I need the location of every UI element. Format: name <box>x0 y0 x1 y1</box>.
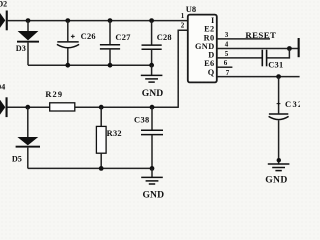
resistor R29 <box>45 90 74 111</box>
svg-text:1: 1 <box>181 12 185 20</box>
svg-text:C26: C26 <box>81 32 96 41</box>
svg-text:2: 2 <box>181 22 185 30</box>
diode D4 <box>0 83 8 118</box>
svg-text:7: 7 <box>226 69 230 77</box>
wire pin3 to RESET <box>217 38 270 40</box>
svg-text:5: 5 <box>225 50 229 58</box>
svg-text:D2: D2 <box>0 0 7 8</box>
svg-text:D3: D3 <box>16 44 26 53</box>
diode D3 <box>16 21 39 66</box>
svg-text:C32: C32 <box>285 99 300 109</box>
wire middle rail <box>28 64 152 66</box>
svg-text:GND: GND <box>142 88 164 99</box>
svg-text:D4: D4 <box>0 83 5 92</box>
diode D2 <box>0 0 8 30</box>
node junction D5/lower rail <box>25 105 30 110</box>
svg-text:4: 4 <box>225 40 229 48</box>
svg-text:R32: R32 <box>107 129 122 138</box>
svg-text:6: 6 <box>224 59 228 67</box>
svg-text:GND: GND <box>143 189 165 200</box>
svg-text:C27: C27 <box>115 33 130 42</box>
wire bottom rail <box>28 167 152 169</box>
wire C31 to pin4 node <box>267 49 290 58</box>
svg-text:D5: D5 <box>12 154 22 163</box>
capacitor C31 <box>262 50 283 70</box>
capacitor C28 <box>142 18 172 67</box>
capacitor C26 <box>57 18 96 67</box>
wire top rail <box>8 20 188 22</box>
node junction D3/top rail <box>26 18 31 23</box>
wire lower rail (D4-R29-R32 net) <box>7 106 178 108</box>
svg-text:E2: E2 <box>204 25 214 34</box>
node pin4/C31 junction <box>287 46 292 51</box>
ground bottom right <box>265 164 289 185</box>
svg-text:GND: GND <box>265 174 288 185</box>
node junction R32/lower rail <box>99 105 104 110</box>
svg-text:C31: C31 <box>268 61 283 70</box>
node junction C38/lower rail <box>150 105 155 110</box>
svg-text:U8: U8 <box>186 4 196 14</box>
op-amp U8 (IC box) <box>186 4 217 82</box>
ground under C28 <box>141 65 164 99</box>
svg-text:E6: E6 <box>204 59 214 68</box>
wire E2 riser <box>178 30 188 108</box>
connector stub at right edge <box>298 38 300 57</box>
capacitor C32 <box>269 77 304 164</box>
wire pin6 stub <box>217 66 233 68</box>
svg-text:3: 3 <box>225 31 229 39</box>
wire pin5 to C31 <box>217 57 262 59</box>
svg-text:GND: GND <box>195 42 215 51</box>
resistor R32 <box>96 107 122 171</box>
wire pin4 net <box>217 48 300 50</box>
svg-text:Q: Q <box>208 68 215 77</box>
wire pin7 Q net <box>217 76 300 78</box>
capacitor C38 <box>134 107 163 171</box>
svg-text:C38: C38 <box>134 115 150 124</box>
node Q/C32 junction <box>276 74 281 79</box>
node RESET <box>217 30 276 40</box>
svg-text:C28: C28 <box>157 33 172 42</box>
svg-text:I: I <box>211 16 215 25</box>
capacitor C27 <box>100 18 131 67</box>
svg-text:R29: R29 <box>45 90 63 99</box>
diode D5 <box>12 107 40 168</box>
ground under C38 <box>141 168 164 200</box>
